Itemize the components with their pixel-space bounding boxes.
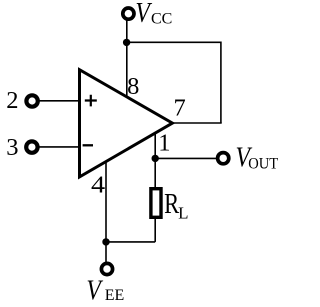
- svg-text:4: 4: [91, 170, 105, 198]
- wire: pin 1 lead down to output node: [154, 134, 156, 159]
- svg-text:CC: CC: [151, 10, 172, 27]
- wire: output node to VOUT terminal: [155, 157, 216, 159]
- terminal: pin 2: [26, 95, 37, 106]
- terminal: VEE: [101, 263, 112, 274]
- wire: VEE terminal stem: [105, 242, 107, 262]
- svg-text:7: 7: [173, 94, 185, 121]
- terminal: VCC: [123, 8, 134, 19]
- svg-text:V: V: [135, 0, 152, 29]
- terminal: pin 3: [26, 141, 37, 152]
- wire: VCC rail right vertical: [220, 42, 222, 124]
- wire: RL bottom lead: [154, 218, 156, 242]
- wire: VCC rail top horizontal: [127, 41, 221, 43]
- op-amp non-inverting input marker (+): [85, 95, 97, 107]
- wire: RL top lead: [154, 158, 156, 188]
- svg-text:V: V: [86, 273, 103, 306]
- junction: VCC node: [123, 39, 130, 46]
- op-amp U1 triangle body: [80, 70, 173, 177]
- svg-text:8: 8: [127, 73, 139, 100]
- svg-text:L: L: [178, 203, 188, 222]
- resistor RL: [151, 189, 161, 218]
- wire: pin 4 supply lead: [105, 162, 107, 242]
- svg-text:1: 1: [158, 130, 170, 157]
- junction: output node: [152, 155, 159, 162]
- terminal: VOUT: [218, 153, 229, 164]
- svg-text:2: 2: [6, 87, 18, 114]
- wire: pin 2 input lead: [38, 100, 80, 102]
- wire: VCC terminal stem: [126, 21, 128, 43]
- wire: pin 3 input lead: [38, 146, 80, 148]
- wire: pin 8 supply lead: [126, 42, 128, 97]
- junction: VEE node: [102, 238, 109, 245]
- op-amp inverting input marker (-): [83, 144, 93, 146]
- wire: VEE rail horizontal: [106, 241, 155, 243]
- svg-text:OUT: OUT: [248, 155, 279, 173]
- svg-text:3: 3: [6, 134, 18, 161]
- wire: output pin 7 horizontal: [172, 122, 222, 124]
- svg-text:EE: EE: [105, 287, 125, 304]
